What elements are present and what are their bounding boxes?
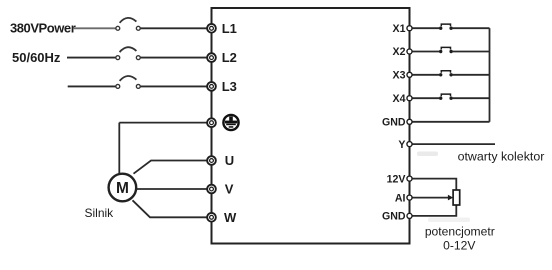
svg-text:X2: X2 <box>393 46 406 58</box>
svg-text:M: M <box>116 180 129 197</box>
svg-text:380VPower: 380VPower <box>10 20 76 35</box>
svg-text:V: V <box>225 182 234 197</box>
svg-text:L1: L1 <box>222 21 237 36</box>
svg-text:otwarty kolektor: otwarty kolektor <box>458 150 545 164</box>
svg-text:X1: X1 <box>393 23 406 35</box>
svg-text:X3: X3 <box>393 70 406 82</box>
svg-text:L3: L3 <box>222 79 237 94</box>
svg-text:0-12V: 0-12V <box>443 238 476 252</box>
svg-text:GND: GND <box>382 211 406 223</box>
svg-text:AI: AI <box>395 192 406 204</box>
svg-text:potencjometr: potencjometr <box>425 225 495 239</box>
svg-text:W: W <box>224 210 237 225</box>
svg-text:X4: X4 <box>393 93 406 105</box>
svg-text:Y: Y <box>398 139 405 151</box>
svg-text:Silnik: Silnik <box>85 206 115 220</box>
svg-text:L2: L2 <box>222 50 237 65</box>
svg-text:U: U <box>225 153 234 168</box>
svg-text:12V: 12V <box>387 173 406 185</box>
svg-text:50/60Hz: 50/60Hz <box>12 50 61 65</box>
svg-text:GND: GND <box>382 117 406 129</box>
